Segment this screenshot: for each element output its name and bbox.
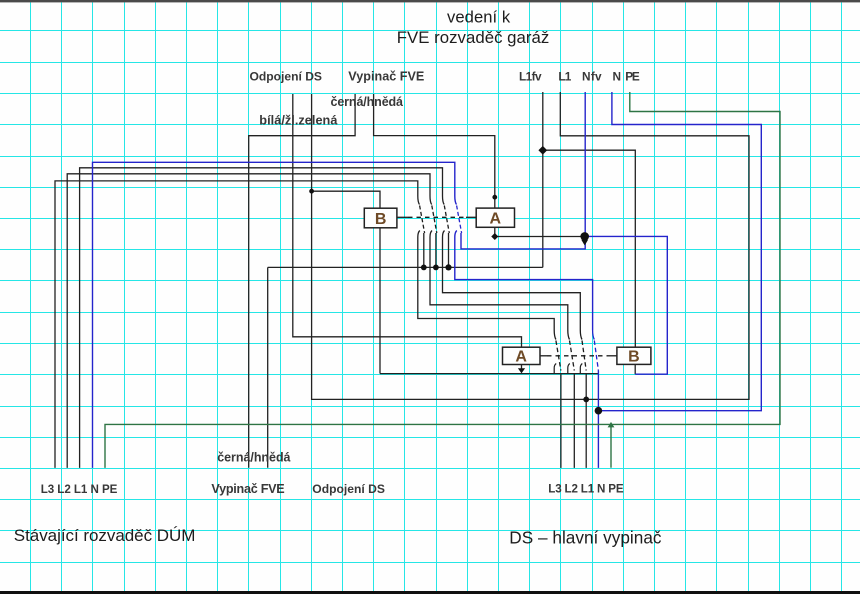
S1 pole3 blade <box>444 206 449 234</box>
wire Vypinac FVE cerna: top label down, left at y135.7, down to bottom label <box>249 94 355 468</box>
arrow DS PE to green bus <box>608 422 615 428</box>
wire DS PE drop (green) <box>610 424 612 467</box>
wire S1 pole3 right throw drop to bus <box>448 233 450 267</box>
junction below contactor A1 <box>491 233 498 240</box>
contactor B2 box <box>617 347 651 365</box>
wire house L3 riser to switch S1 pole1 top <box>55 181 420 468</box>
S2 pole top contact kinks <box>554 330 582 340</box>
svg-text:černá/hnědá: černá/hnědá <box>331 95 404 109</box>
junction above contactor A1 <box>492 195 497 200</box>
wire house L1 riser to switch S1 pole3 top <box>80 168 445 468</box>
wire S1 bus left drop to bottom Odpojeni DS label <box>267 267 269 467</box>
arrow on Nfv below node <box>581 240 588 246</box>
wire Nfv riser (blue) <box>461 92 585 249</box>
switch S2 blades (dashed) <box>556 341 586 371</box>
junction on Odpojeni DS 2 at B1 tap <box>309 189 314 194</box>
wire Nfv junction to contactor B2 bottom (blue) <box>585 236 668 374</box>
contactor A1 box <box>476 208 514 228</box>
wire S1 pole4 left throw to S2 pole4 top (blue) <box>455 231 593 331</box>
S2 linkage dashed line to coils A2 and B2 <box>540 355 617 357</box>
wire switch S1 output bus <box>268 266 543 268</box>
svg-text:FVE rozvaděč garáž: FVE rozvaděč garáž <box>397 28 550 47</box>
page bottom border <box>0 591 860 594</box>
wire S2 pole2 output drop to DS L2 <box>573 374 575 468</box>
wire contactor A2 bottom to bus1 <box>521 365 523 371</box>
svg-text:Odpojení DS: Odpojení DS <box>250 70 323 84</box>
wire contactor A1 bottom to Nfv junction <box>495 227 585 236</box>
S1 pole1 blade <box>420 206 425 234</box>
contactor B1 box <box>364 208 397 228</box>
wire S2 common bus1 <box>380 373 598 375</box>
wire S1 pole2 right throw drop to bus <box>435 233 437 267</box>
S1 pole2 blade <box>432 206 437 234</box>
page top border <box>0 0 860 2</box>
wire contactor B1 top feed from Odpojeni DS 2 <box>312 191 380 208</box>
junction S1 bus pole2 <box>433 265 439 271</box>
S2 pole4 top contact kink (blue) <box>593 330 595 340</box>
svg-text:B: B <box>628 348 640 365</box>
wire S2 pole4 output drop to DS N (blue) <box>597 371 599 468</box>
wire contactor B2 bottom stub <box>634 364 636 374</box>
svg-text:PE: PE <box>625 70 640 84</box>
wire contactor B1 bottom to S2 common bus1 <box>379 228 381 374</box>
wire S1 pole3 left throw to switch S2 pole3 top <box>443 231 581 331</box>
svg-text:A: A <box>515 349 527 366</box>
wire Vypinac FVE hneda: top label down to contactor A1 top <box>374 94 495 208</box>
arrow contactor A2 to bus1 <box>518 368 525 373</box>
wire Odpojeni DS 1: top label down, right at y336.8 to contactor A2 top <box>293 94 522 347</box>
svg-text:Nfv: Nfv <box>582 70 602 84</box>
junction S1 bus pole3 <box>445 264 451 270</box>
junction DS N node <box>595 407 603 415</box>
S1 pole4 blade (blue) <box>457 206 462 234</box>
S2 pole4 blade (blue) <box>594 341 598 371</box>
contactor A2 box <box>503 347 541 365</box>
wire PE loop from top label around right side to house PE (green) <box>105 92 780 468</box>
junction on L1fv <box>538 146 547 155</box>
junction S1 bus pole1 <box>421 265 427 271</box>
svg-text:Odpojení DS: Odpojení DS <box>312 482 385 496</box>
junction DS bus2 L1 <box>583 397 589 403</box>
svg-text:bílá/žl.zelená: bílá/žl.zelená <box>259 114 338 128</box>
svg-text:černá/hnědá: černá/hnědá <box>217 451 290 465</box>
svg-text:Stávající rozvaděč DÚM: Stávající rozvaděč DÚM <box>14 526 196 545</box>
svg-text:N: N <box>613 70 622 84</box>
wire L1fv branch to contactor B2 top <box>543 150 636 347</box>
S2 left throw stubs to bus1 <box>554 364 582 374</box>
svg-text:Vypinač FVE: Vypinač FVE <box>211 482 284 496</box>
wire S1 pole2 left throw to switch S2 pole2 top <box>430 231 568 331</box>
svg-text:vedení k: vedení k <box>447 8 511 27</box>
svg-text:L1: L1 <box>558 70 571 84</box>
switch S1 blades (dashed) <box>420 206 450 234</box>
wire S2 pole1 output drop to DS L3 <box>560 374 562 468</box>
wire L1fv riser through junction to switch S1 output bus <box>542 92 544 267</box>
wire house L2 riser to switch S1 pole2 top <box>67 174 432 468</box>
svg-text:B: B <box>375 211 387 228</box>
wire S2 pole3 output drop to DS L1 <box>585 374 587 468</box>
svg-text:L3 L2 L1 N PE: L3 L2 L1 N PE <box>548 483 624 496</box>
junction Nfv big node <box>580 232 589 241</box>
svg-text:L1fv: L1fv <box>519 70 542 84</box>
S1 linkage dashed line to coils B1 and A1 <box>397 216 476 218</box>
wire N riser loop to DS N (blue) <box>598 92 761 411</box>
svg-text:L3 L2 L1 N PE: L3 L2 L1 N PE <box>41 483 118 496</box>
S2 pole2 blade <box>570 341 575 371</box>
S2 pole3 blade <box>582 341 586 371</box>
svg-text:A: A <box>490 211 502 228</box>
svg-text:Vypinač FVE: Vypinač FVE <box>348 70 424 84</box>
wire Odpojeni DS 2 + DS bus2 + L1 feed loop <box>312 92 749 399</box>
wire S1 pole1 left throw to switch S2 pole1 top <box>418 231 554 331</box>
wire S1 pole1 right throw drop to bus <box>423 233 425 267</box>
S2 pole1 blade <box>556 341 561 371</box>
wire house N riser to switch S1 pole4 top (blue) <box>93 162 457 468</box>
svg-text:DS – hlavní vypinač: DS – hlavní vypinač <box>509 528 662 548</box>
